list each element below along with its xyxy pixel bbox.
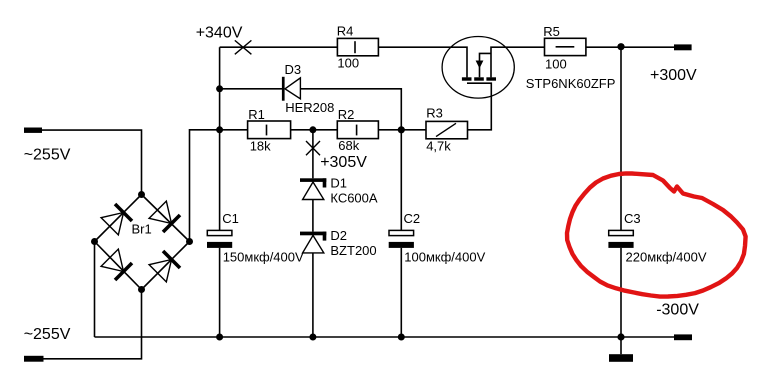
wire +300V node down to C3 — [620, 47, 622, 231]
svg-text:100: 100 — [337, 56, 359, 71]
wire C3 bottom to rail and ground symbol — [620, 248, 622, 354]
node rail C1 — [216, 334, 223, 341]
svg-text:Br1: Br1 — [132, 222, 152, 237]
wire D2 to ground rail — [312, 253, 314, 337]
red highlight circle around C3 — [567, 173, 746, 296]
node +300V junction — [617, 43, 624, 50]
resistor R5 — [543, 24, 586, 72]
wire D3 anode row — [220, 88, 282, 90]
svg-text:C3: C3 — [624, 211, 641, 226]
wire D1 to D2 — [312, 200, 314, 232]
bridge arm bottom-right — [142, 242, 190, 290]
terminal ~255V bottom — [24, 356, 44, 362]
svg-text:100: 100 — [545, 56, 567, 71]
svg-text:-300V: -300V — [656, 301, 699, 318]
svg-text:150мкф/400V: 150мкф/400V — [223, 250, 304, 265]
svg-text:C2: C2 — [404, 211, 421, 226]
wire bridge plus output up to R1 — [190, 130, 248, 242]
svg-text:R1: R1 — [248, 107, 265, 122]
terminal +300V — [674, 44, 692, 50]
zener diode D2 — [300, 228, 377, 258]
wire bridge minus output down — [94, 242, 96, 338]
bridge rectifier Br1 — [101, 201, 180, 282]
svg-text:68k: 68k — [338, 138, 359, 153]
svg-text:220мкф/400V: 220мкф/400V — [626, 250, 707, 265]
svg-text:+305V: +305V — [320, 154, 367, 171]
node D3 row junction — [216, 85, 223, 92]
capacitor C3 — [608, 211, 706, 264]
node +305V junction — [309, 126, 316, 133]
svg-text:D2: D2 — [330, 228, 347, 243]
svg-text:STP6NK60ZFP: STP6NK60ZFP — [526, 76, 616, 91]
bridge diode left-top — [101, 204, 132, 235]
wire ~255V bottom input to bridge — [42, 290, 142, 359]
svg-text:R5: R5 — [543, 24, 560, 39]
wire C2 bottom to ground rail — [400, 248, 402, 337]
fuse mark X on +340V rail — [235, 40, 252, 54]
svg-text:BZT200: BZT200 — [330, 243, 376, 258]
MOSFET Q1 STP6NK60ZFP — [442, 37, 514, 99]
svg-text:~255V: ~255V — [24, 326, 71, 343]
bridge diode bottom-right — [149, 251, 180, 282]
wire C1 bottom to ground rail — [219, 248, 221, 337]
terminal -300V — [674, 334, 692, 340]
node bridge left — [91, 238, 98, 245]
svg-text:КС600А: КС600А — [330, 191, 378, 206]
svg-text:C1: C1 — [222, 211, 239, 226]
node rail C2 — [398, 334, 405, 341]
svg-text:D3: D3 — [285, 62, 302, 77]
wire ~255V top input to bridge — [42, 130, 142, 194]
svg-text:R3: R3 — [426, 105, 443, 120]
svg-text:+300V: +300V — [650, 67, 697, 84]
bridge diode left-bottom — [101, 249, 132, 280]
terminal ~255V top — [24, 128, 42, 133]
svg-text:+340V: +340V — [196, 24, 243, 41]
zener diode D1 — [300, 176, 378, 206]
node bridge right — [186, 238, 193, 245]
wire +340V vertical down to C1 — [219, 47, 221, 230]
bridge arm top-right — [142, 195, 190, 242]
resistor R3 — [426, 105, 468, 153]
svg-text:R2: R2 — [338, 107, 355, 122]
fuse mark X at +305V node — [306, 141, 320, 155]
wire node to D1 — [312, 130, 314, 179]
svg-text:18k: 18k — [250, 139, 271, 154]
node R2-R3 junction — [398, 126, 405, 133]
diode D3 — [282, 62, 334, 115]
node bridge bottom — [138, 286, 145, 293]
svg-text:4,7k: 4,7k — [426, 138, 451, 153]
bridge arm left-bottom — [95, 242, 142, 290]
wire top rail left segment — [220, 46, 338, 48]
node +340V / divider junction — [216, 126, 223, 133]
wire node down to C2 — [400, 130, 402, 231]
capacitor C2 — [389, 211, 486, 264]
bridge arm left-top — [95, 195, 142, 242]
wire R5 to +300V terminal — [586, 46, 674, 48]
wire D3 cathode to node at R2 right — [300, 89, 401, 130]
node rail D2 — [309, 334, 316, 341]
svg-text:~255V: ~255V — [24, 147, 71, 164]
wire MOSFET gate down to R3 — [467, 83, 491, 130]
node rail C3 — [617, 333, 624, 340]
node bridge top — [138, 191, 145, 198]
svg-text:HER208: HER208 — [285, 100, 334, 115]
resistor R4 — [337, 23, 379, 70]
wire R2 to R3 — [378, 129, 426, 131]
wire R1 to R2 — [291, 129, 338, 131]
wire MOSFET source to R5 — [491, 47, 545, 77]
capacitor C1 — [207, 211, 304, 264]
resistor R2 — [337, 107, 378, 153]
bridge diode top-right — [149, 201, 180, 232]
svg-text:R4: R4 — [337, 23, 354, 38]
wire R4 to MOSFET drain — [378, 47, 467, 77]
svg-text:100мкф/400V: 100мкф/400V — [404, 250, 485, 265]
ground symbol — [609, 354, 633, 362]
wire bottom ground rail — [95, 336, 675, 338]
svg-text:D1: D1 — [330, 176, 347, 191]
resistor R1 — [248, 107, 291, 154]
